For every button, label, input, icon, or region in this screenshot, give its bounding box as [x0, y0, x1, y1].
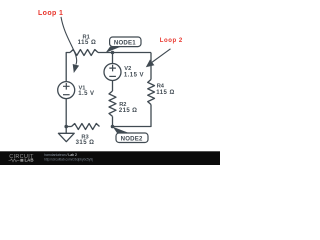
wire bottom-left (R3 to ground node)	[66, 126, 71, 128]
voltage source V1 circle	[58, 82, 75, 99]
V2 plus sign	[109, 65, 116, 72]
wire V2 top lead	[112, 53, 114, 64]
svg-text:V2: V2	[124, 66, 131, 72]
node NODE1 label box	[110, 37, 141, 47]
junction node dot bottom (NODE2)	[111, 125, 115, 129]
svg-text:http://circuitlab.com/c/bqbbyb: http://circuitlab.com/c/bqbbybc5y9j	[44, 158, 93, 162]
resistor R1	[70, 50, 98, 56]
wire V2 to R2	[112, 81, 114, 91]
footer logo block	[20, 159, 23, 162]
resistor R2	[109, 91, 116, 116]
svg-text:NODE2: NODE2	[121, 135, 143, 142]
node NODE2 label box	[116, 133, 148, 143]
ground stub wire	[65, 127, 67, 134]
resistor R4	[148, 80, 155, 105]
wire top (R1 to right corner)	[98, 52, 151, 54]
wire top-left vertical (V1 top to R1)	[66, 53, 70, 82]
footer black bar	[0, 151, 220, 165]
resistor R3	[72, 124, 100, 130]
Loop 1 arrowhead	[73, 64, 79, 73]
Loop 2 annotation arrow	[151, 49, 171, 63]
wire right branch upper (corner to R4)	[150, 53, 152, 80]
junction node dot top (NODE1)	[111, 51, 115, 55]
svg-text:LAB: LAB	[25, 158, 34, 163]
Loop 1 annotation arrow	[61, 17, 77, 65]
svg-text:Loop 1: Loop 1	[38, 10, 63, 17]
node NODE1 flag pointer	[106, 47, 121, 53]
wire V1 bottom lead	[65, 99, 67, 127]
node NODE2 flag pointer	[113, 127, 129, 133]
junction node dot ground	[64, 125, 68, 129]
svg-text:115 Ω: 115 Ω	[78, 40, 97, 46]
V1 plus sign	[63, 65, 116, 95]
Loop 2 arrowhead	[146, 60, 155, 68]
V1 minus sign	[63, 94, 70, 96]
svg-text:R4: R4	[157, 83, 165, 89]
wire right branch lower (R4 to bottom corner)	[113, 105, 152, 127]
ground symbol triangle	[58, 133, 74, 141]
svg-text:315 Ω: 315 Ω	[76, 140, 95, 146]
svg-text:115 Ω: 115 Ω	[156, 90, 175, 96]
svg-text:1.5 V: 1.5 V	[78, 91, 94, 97]
svg-text:NODE1: NODE1	[114, 39, 136, 46]
wire R2 bottom lead	[112, 116, 114, 126]
svg-text:215 Ω: 215 Ω	[119, 108, 137, 114]
svg-text:hamdanlatean / Lab 2: hamdanlatean / Lab 2	[44, 153, 77, 157]
V2 minus sign	[109, 75, 116, 77]
footer logo waveform squiggle	[9, 159, 20, 162]
voltage source V2 circle	[104, 64, 121, 81]
svg-text:Loop 2: Loop 2	[160, 38, 183, 44]
svg-text:1.15 V: 1.15 V	[124, 73, 144, 79]
